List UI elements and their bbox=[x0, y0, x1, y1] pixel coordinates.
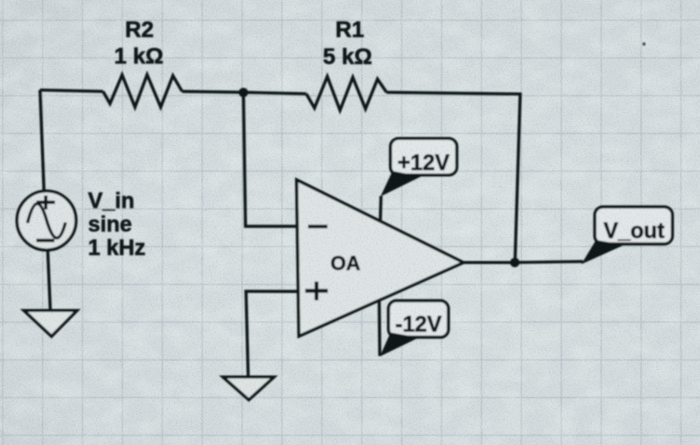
wire source to ground bbox=[48, 250, 51, 310]
source sine symbol bbox=[28, 204, 66, 238]
wire output bbox=[463, 262, 583, 263]
resistor R2 bbox=[103, 75, 182, 107]
+12V callout bbox=[391, 139, 457, 176]
wire input top bbox=[40, 90, 103, 91]
-12V pin stub bbox=[378, 301, 382, 357]
source V1 circle bbox=[17, 191, 76, 250]
dust speck bbox=[642, 42, 645, 45]
wire noninverting input bbox=[246, 291, 297, 377]
wire inverting input bbox=[243, 92, 297, 226]
wire R2 to junction to R1 bbox=[182, 91, 306, 93]
ground source bbox=[24, 311, 77, 337]
op-amp minus mark bbox=[308, 225, 328, 229]
+12V pin stub bbox=[379, 196, 383, 220]
junction node A bbox=[239, 88, 248, 97]
junction node out bbox=[510, 258, 519, 267]
resistor R1 bbox=[306, 77, 386, 111]
wire left vertical to source bbox=[40, 90, 44, 191]
op-amp plus mark bbox=[305, 282, 328, 301]
-12V callout bbox=[389, 301, 449, 338]
V_out callout bbox=[595, 207, 673, 244]
ground opamp bbox=[223, 377, 274, 400]
wire feedback top and down bbox=[387, 92, 521, 262]
source minus mark bbox=[36, 239, 54, 242]
source plus mark bbox=[37, 196, 56, 210]
op-amp U1 triangle bbox=[297, 180, 464, 336]
